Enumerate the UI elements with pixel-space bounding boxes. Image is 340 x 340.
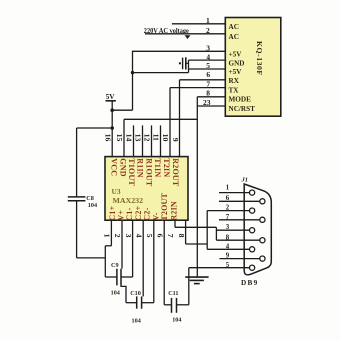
svg-text:C9: C9 [111,262,119,269]
svg-text:6: 6 [206,70,210,79]
wire C9 left riser [104,246,106,277]
svg-text:T1IN: T1IN [153,158,162,177]
svg-text:7: 7 [166,234,175,238]
wire U2 pin 2 (AC) [145,33,225,35]
svg-text:104: 104 [88,202,97,209]
svg-text:KQ-130F: KQ-130F [255,41,264,76]
wire from 5V node to left rail [77,127,113,129]
wire left rail upper [76,128,78,196]
wire DB9 pin 2 [207,210,252,212]
svg-text:T2OUT: T2OUT [160,192,169,220]
wire U2 pin 3 (+5V) [132,50,225,52]
wire C9 right [121,276,133,278]
wire DB9 pin 5 (GND) [189,267,252,269]
capacitor C8 plate top [68,196,86,198]
svg-text:5V: 5V [106,92,116,101]
DB9 pin hole 1 [250,190,255,195]
wire U3 pin 2 stub [121,220,123,268]
DB9 pin hole 7 [260,217,265,222]
svg-text:8: 8 [226,234,230,241]
wire C11 riser to ground line [188,268,190,305]
wire 5V stem down to U3 pin 16 [111,101,113,157]
wire C10 left [126,302,137,304]
svg-text:10: 10 [161,134,170,142]
svg-text:VCC: VCC [110,158,119,176]
wire U3 pin 15 stub to ground bus [123,119,125,156]
capacitor C10 plate left [136,296,138,308]
svg-text:104: 104 [132,317,141,324]
svg-text:GND: GND [229,59,245,67]
wire U2 pin 1 (AC) [172,23,225,25]
DB9 pin hole 4 [250,247,255,252]
svg-text:R1IN: R1IN [136,158,145,177]
wire U2 pin 23 (NC/RST) [197,105,225,107]
capacitor C11 plate left [171,298,173,313]
IC U3 MAX232 body [105,157,188,221]
wire DB9 pin 1 [219,192,252,194]
wire from rail to 5V riser [133,72,189,74]
wire DB9 pin 4 [207,248,252,250]
node 5V junction upper [110,108,114,112]
wire U2 pin 4 (GND) [189,59,226,61]
capacitor C11 plate right [176,298,178,313]
svg-text:3: 3 [124,234,133,238]
capacitor C10 plate right [141,296,143,308]
capacitor C7 plate left (curved) [182,58,184,70]
svg-text:2: 2 [226,205,230,212]
svg-text:GND: GND [118,158,127,176]
svg-text:4: 4 [206,52,210,61]
svg-text:16: 16 [103,134,112,142]
wire U2 pin 7 (TX) [170,87,225,89]
wire C10 right [142,302,154,304]
connector J1 DB9 body [241,177,272,288]
DB9 pin hole 8 [260,238,265,243]
wire U3 pin 12 stub [151,125,153,156]
wire C11 left [164,304,171,306]
svg-text:7: 7 [206,79,210,88]
wire U3 pin 1 stub [110,220,112,246]
svg-text:R1OUT: R1OUT [144,158,153,187]
wire U3 pin 7 horizontal run [175,226,216,228]
svg-text:R2OUT: R2OUT [171,158,180,187]
wire DB9 pin2/pin4 riser [206,211,208,250]
capacitor C7 plate right [185,57,187,69]
wire U3 pin 14 stub [133,125,135,156]
wire C11 right [177,304,189,306]
wire U3 pin 3 stub / C9 right riser [132,220,134,277]
wire U3 pin 4 stub [142,220,144,296]
node 5V junction lower [110,126,114,130]
svg-text:12: 12 [143,134,152,142]
svg-text:5: 5 [145,234,154,238]
svg-text:AC: AC [229,23,239,31]
DB9 pin hole 3 [250,228,255,233]
svg-text:23: 23 [203,98,211,107]
wire U3 pin 7 stub [174,220,176,227]
wire U3 pin 8 horizontal run [186,243,208,245]
capacitor C7 polarity mark [179,62,181,64]
wire left rail lower [76,201,78,258]
svg-text:1: 1 [206,16,210,25]
wire U3 pin 1 jog [105,245,111,247]
wire U2 pin 6 (RX) [180,79,226,81]
wire ground bus horizontal (pin15 to MODE/RST drop) [124,118,197,120]
svg-text:4: 4 [134,234,143,238]
svg-text:6: 6 [155,234,164,238]
wire U3 pin 5 stub / C10 right riser [153,220,155,303]
wire MODE/RST ground drop [196,97,198,268]
wire TX riser to U3 pin 10 [169,88,171,157]
wire U3 pin 8 stub [185,220,187,244]
svg-text:V+: V+ [117,210,126,221]
wire U2 pin 8 (MODE) [197,96,225,98]
svg-text:C8: C8 [86,195,94,202]
svg-text:8: 8 [177,234,186,238]
wire left rail to C9 riser [77,257,106,259]
svg-text:14: 14 [125,134,134,142]
capacitor C9 plate left [116,269,118,286]
svg-text:C2-: C2- [143,207,152,220]
svg-text:MAX232: MAX232 [113,196,144,205]
wire DB9 pin 6 [219,200,262,202]
svg-text:2: 2 [206,26,210,35]
svg-text:5: 5 [226,262,230,269]
svg-text:T2IN: T2IN [162,158,171,177]
svg-text:3: 3 [226,224,230,231]
svg-text:MODE: MODE [229,96,252,104]
wire DB9 pin 7 [219,219,262,221]
wire U3 pin 6 stub / C11 left riser [163,220,165,305]
DB9 pin hole 9 [260,256,265,261]
svg-text:TX: TX [229,86,240,94]
wire DB9 pin 9 [220,258,263,260]
wire 5V riser vertical [132,51,134,110]
svg-text:5: 5 [206,61,210,70]
svg-text:1: 1 [103,234,112,238]
svg-text:V-: V- [151,212,160,220]
wire drop to DB9 pin 8 line [215,227,217,240]
svg-text:104: 104 [172,316,181,323]
svg-text:RX: RX [229,77,240,85]
svg-text:C1-: C1- [125,207,134,220]
svg-text:9: 9 [226,253,230,260]
svg-text:R2IN: R2IN [169,201,178,220]
svg-text:C11: C11 [168,290,178,297]
svg-text:NC/RST: NC/RST [229,105,256,113]
svg-text:13: 13 [134,134,143,142]
DB9 pin hole 2 [250,208,255,213]
wire DB9 pin 8 [216,239,262,241]
svg-text:J1: J1 [241,177,249,184]
wire U2 pin 5 (+5V) [189,68,226,70]
wire C9 left [105,276,117,278]
svg-text:11: 11 [152,134,161,141]
svg-text:9: 9 [171,138,180,142]
capacitor C9 plate right [120,269,122,286]
node at 5V riser and +5V wire [131,71,134,74]
wire 5V junction horizontal [112,109,132,111]
svg-text:3: 3 [206,43,210,52]
power flag 5V [106,92,116,101]
ground [185,268,208,284]
svg-text:7: 7 [226,214,230,221]
svg-text:104: 104 [111,290,120,297]
wire C9 to C10 jog [121,285,126,302]
svg-text:C1+: C1+ [108,205,117,220]
svg-text:15: 15 [115,134,124,142]
svg-text:8: 8 [206,89,210,98]
svg-text:C10: C10 [130,290,141,297]
svg-text:DB9: DB9 [241,279,258,287]
svg-text:+5V: +5V [229,68,243,76]
svg-text:2: 2 [113,234,122,238]
svg-text:+5V: +5V [229,51,243,59]
svg-text:AC: AC [229,33,239,41]
capacitor C8 plate bottom [68,200,86,202]
arrow on AC line [185,35,191,39]
module U2 KQ-130F body [225,18,280,117]
wire U3 pin 11 stub [160,125,162,156]
svg-text:C2+: C2+ [134,205,143,220]
svg-text:6: 6 [226,195,230,202]
wire DB9 pin 3 [216,229,252,231]
svg-text:4: 4 [226,243,230,250]
wire C7 to +5V/GND rail [186,62,189,64]
svg-text:1: 1 [226,185,230,192]
DB9 pin hole 6 [260,199,265,204]
wire RX riser to U3 pin 9 [179,80,181,157]
DB9 pin hole 5 [250,265,255,270]
wire rail joining U2 pins 4 and 5 [188,60,190,73]
svg-text:T1OUT: T1OUT [127,158,136,186]
wire U3 pin 13 stub [142,125,144,156]
svg-text:U3: U3 [112,187,121,196]
